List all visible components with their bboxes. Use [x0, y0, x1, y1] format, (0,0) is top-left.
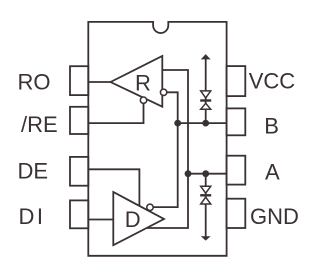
svg-text:A: A [265, 160, 280, 185]
svg-text:VCC: VCC [249, 69, 296, 94]
protection diode pair D2 (A to GND) [200, 186, 211, 204]
svg-text:DE: DE [18, 158, 49, 183]
junction dot net A at diode rail [202, 170, 209, 177]
wire /RE to receiver enable bubble [88, 103, 143, 123]
wire A line to pin A [188, 173, 227, 175]
wire RO to receiver output [88, 81, 110, 83]
pin DE box (pin 3) [70, 157, 88, 186]
op-amp R receiver triangle [111, 56, 163, 107]
pin DI box (pin 4) [70, 200, 88, 228]
wire DE to driver enable [88, 169, 139, 205]
arrow to VCC [201, 54, 211, 59]
pin /RE box (pin 2) [70, 107, 88, 134]
junction dot net B at diode rail [202, 120, 209, 127]
IC body U1 outline with pin-1 notch [88, 22, 226, 256]
wire GND protection rail [205, 174, 207, 238]
pin RO box (pin 1) [70, 66, 88, 95]
svg-text:R: R [135, 71, 151, 96]
pin VCC box (pin 8) [227, 66, 246, 96]
pin B box (pin 7) [227, 108, 246, 135]
junction dot net B at receiver branch [174, 120, 181, 127]
junction dot net A at receiver branch [185, 170, 192, 177]
bubble on receiver enable (/RE) [140, 97, 146, 103]
svg-text:/RE: /RE [21, 112, 58, 137]
svg-text:DI: DI [19, 204, 46, 229]
pin GND box (pin 5) [227, 199, 246, 228]
wire net A: receiver + input down to A line and driver output [146, 70, 189, 228]
bubble on driver inverting output (B) [147, 204, 153, 210]
bubble on receiver inverting input (B) [160, 89, 166, 95]
svg-text:B: B [264, 114, 279, 139]
arrow to GND [201, 236, 211, 240]
wire net B: receiver - input bubble down to B line and driver inverting bubble [153, 92, 178, 207]
svg-text:GND: GND [250, 204, 299, 229]
protection diode pair D1 (B to VCC) [200, 91, 211, 109]
svg-text:D: D [125, 207, 141, 232]
pin A box (pin 6) [227, 156, 246, 185]
wire VCC protection rail [205, 58, 207, 124]
wire B line to pin B [178, 122, 227, 124]
svg-text:RO: RO [18, 69, 51, 94]
wire DI to driver input [88, 219, 113, 221]
op-amp D driver triangle [113, 192, 164, 245]
